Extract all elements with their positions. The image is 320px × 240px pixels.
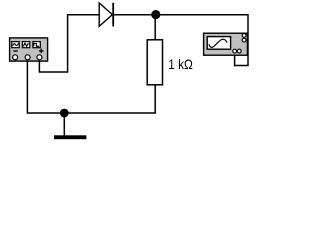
node junction at top rail xyxy=(151,10,160,19)
wire ground stem xyxy=(63,113,65,136)
diode D1 xyxy=(99,3,113,27)
resistor R1 xyxy=(147,40,162,85)
wire function generator common terminal down to ground rail xyxy=(26,59,28,114)
ground xyxy=(54,135,86,139)
wire top rail left segment (to diode anode) xyxy=(67,14,100,16)
svg-text:1 kΩ: 1 kΩ xyxy=(168,57,193,72)
oscilloscope XSC1 xyxy=(204,33,248,55)
function generator XFG1 xyxy=(10,38,48,61)
wire resistor bottom to ground rail xyxy=(27,85,155,114)
wire scope branch: top rail corner down, left, into scope bottom terminal xyxy=(235,14,248,66)
wire junction down to resistor top xyxy=(154,15,156,41)
node junction at ground rail xyxy=(60,109,69,118)
wire top rail right segment (diode cathode to scope branch corner) xyxy=(113,14,248,16)
wire from function generator + terminal up to top rail xyxy=(39,15,67,72)
